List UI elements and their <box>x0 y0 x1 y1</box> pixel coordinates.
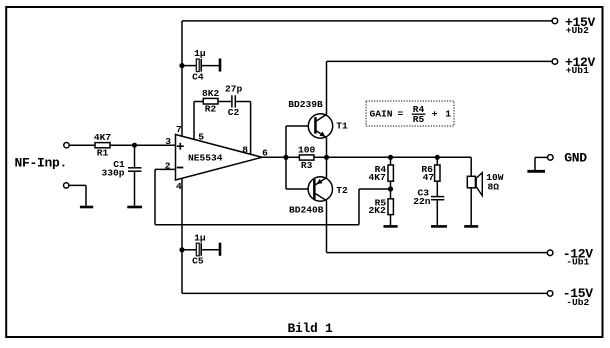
wire R4 to R5 <box>390 181 392 199</box>
terminal -15V <box>547 286 593 308</box>
ground under C1 <box>127 206 142 209</box>
svg-text:GAIN: GAIN <box>370 109 393 120</box>
svg-text:1µ: 1µ <box>194 232 206 243</box>
GAIN formula box <box>366 101 454 126</box>
caption Bild 1 <box>288 321 334 336</box>
wire input to R1 <box>69 144 95 146</box>
terminal -12V <box>547 246 593 267</box>
svg-text:330p: 330p <box>102 168 125 179</box>
terminal +12V <box>552 55 595 76</box>
svg-text:4K7: 4K7 <box>369 172 387 183</box>
svg-text:8: 8 <box>242 144 248 155</box>
svg-text:47: 47 <box>423 172 435 183</box>
ground bar GND <box>527 170 545 173</box>
capacitor C4 <box>182 48 219 82</box>
terminal +15V <box>552 15 595 36</box>
svg-text:R3: R3 <box>301 160 313 171</box>
svg-text:C4: C4 <box>192 71 204 82</box>
svg-text:4: 4 <box>176 181 182 192</box>
svg-text:+: + <box>432 109 438 120</box>
svg-text:Bild 1: Bild 1 <box>288 321 334 336</box>
resistor R2 <box>202 88 220 114</box>
svg-text:R5: R5 <box>413 114 425 125</box>
svg-text:1: 1 <box>445 109 451 120</box>
capacitor C5 <box>182 232 219 266</box>
wire R6 to C3 <box>436 181 438 196</box>
resistor R3 <box>298 144 316 171</box>
ground under J2 <box>80 206 93 209</box>
wire C2 to pin 8 <box>236 102 251 155</box>
node R4 top <box>388 155 393 160</box>
svg-text:4K7: 4K7 <box>94 132 112 143</box>
svg-text:-Ub2: -Ub2 <box>566 297 589 308</box>
svg-text:BD239B: BD239B <box>288 99 323 110</box>
svg-text:5: 5 <box>198 132 204 143</box>
node emitter junction <box>324 155 329 160</box>
svg-text:27p: 27p <box>225 83 243 94</box>
wire base rail <box>286 126 314 189</box>
label NF-Inp. <box>15 156 68 171</box>
input terminal J1 <box>64 143 69 148</box>
speaker LS1 <box>467 172 504 195</box>
svg-text:+Ub2: +Ub2 <box>566 25 589 36</box>
pin 4 label <box>176 181 182 192</box>
svg-text:=: = <box>398 109 404 120</box>
wire T2 emitter up <box>326 157 328 177</box>
svg-text:22n: 22n <box>413 196 431 207</box>
resistor R5 <box>369 198 394 216</box>
wire R1 to op-amp pin 3 <box>110 144 176 146</box>
node feedback junction <box>388 186 393 191</box>
svg-text:2K2: 2K2 <box>369 205 387 216</box>
wire speaker drop <box>470 157 472 225</box>
svg-text:NF-Inp.: NF-Inp. <box>15 156 68 171</box>
terminal GND <box>535 151 587 170</box>
svg-text:-Ub1: -Ub1 <box>566 257 589 268</box>
capacitor C1 <box>102 145 142 206</box>
pin 2 label <box>165 160 171 171</box>
svg-text:3: 3 <box>165 136 171 147</box>
pin 6 label <box>262 148 268 159</box>
svg-text:8Ω: 8Ω <box>488 181 500 192</box>
wire pin 4 down to -15V rail <box>182 178 547 293</box>
pin 8 label <box>242 144 248 155</box>
wire T2 collector to -12V rail <box>327 201 548 253</box>
svg-text:1µ: 1µ <box>194 48 206 59</box>
resistor R4 <box>369 157 394 183</box>
node output <box>283 155 288 160</box>
svg-text:C5: C5 <box>192 256 204 267</box>
wire T1 collector to +12V rail <box>327 61 553 114</box>
wire pin5 to R2 <box>194 101 203 103</box>
node input <box>132 143 137 148</box>
svg-text:NE5534: NE5534 <box>188 152 223 163</box>
svg-text:T1: T1 <box>336 121 348 132</box>
svg-text:BD240B: BD240B <box>289 204 324 215</box>
wire pin 2 loop to feedback node <box>155 169 391 224</box>
ground bar C4 <box>219 59 222 72</box>
wire pin 7 up to +15V rail <box>182 21 552 136</box>
transistor T2 BD240B <box>289 177 348 216</box>
svg-text:GND: GND <box>564 151 587 166</box>
wire C3 to ground <box>436 200 438 226</box>
pin 3 label <box>165 136 171 147</box>
transistor T1 BD239B <box>288 99 348 138</box>
wire R5 to ground <box>390 215 392 226</box>
node C5 junction <box>179 247 184 252</box>
wire R2 to C2 <box>218 101 231 103</box>
pin 7 label <box>176 124 182 135</box>
resistor R1 <box>94 132 112 158</box>
op-amp U1 NE5534 <box>176 135 263 181</box>
ground bar speaker <box>464 225 478 228</box>
wire R3 to speaker <box>314 156 471 158</box>
node R6 top <box>435 155 440 160</box>
svg-text:7: 7 <box>176 124 182 135</box>
wire op-amp output pin 6 <box>262 156 299 158</box>
svg-text:C2: C2 <box>228 107 240 118</box>
wire pin 5 up <box>193 102 195 140</box>
svg-text:8K2: 8K2 <box>202 88 220 99</box>
resistor R6 <box>421 157 440 183</box>
svg-text:+Ub1: +Ub1 <box>566 65 589 76</box>
pin 5 label <box>198 132 204 143</box>
wire T1 emitter down <box>326 138 328 158</box>
svg-text:T2: T2 <box>336 185 348 196</box>
ground bar C3 <box>431 225 447 228</box>
node C4 junction <box>179 63 184 68</box>
ground bar R5 <box>384 225 398 228</box>
ground bar C5 <box>219 243 222 256</box>
svg-text:100: 100 <box>298 144 316 155</box>
capacitor C2 <box>225 83 243 118</box>
svg-text:R2: R2 <box>205 103 217 114</box>
input terminal J2 <box>63 183 86 206</box>
svg-text:R1: R1 <box>97 147 109 158</box>
capacitor C3 <box>413 188 444 207</box>
